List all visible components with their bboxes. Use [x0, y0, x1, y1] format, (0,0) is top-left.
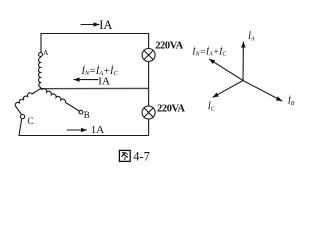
phasor vector IB [243, 81, 282, 101]
phasor vector IN [209, 59, 243, 80]
svg-text:IA: IA [98, 75, 110, 87]
svg-text:C: C [27, 117, 33, 127]
terminal C [21, 115, 25, 119]
svg-text:İB: İB [287, 96, 295, 108]
current arrow IN (middle, pointing left) [74, 79, 98, 81]
svg-text:IA: IA [99, 18, 112, 32]
wire lamp 2 to bottom rail [148, 119, 150, 136]
svg-text:İN=İA+İC: İN=İA+İC [191, 45, 227, 57]
caption figure number 图 4-7 [119, 149, 149, 163]
wire between lamps [148, 62, 150, 107]
svg-text:A: A [43, 48, 49, 57]
svg-text:İA: İA [247, 31, 255, 43]
current arrow IA top [81, 24, 99, 26]
svg-text:İC: İC [207, 101, 216, 113]
wire bottom rail [19, 135, 149, 137]
wire bottom-left riser to terminal C [19, 119, 22, 135]
svg-text:220VA: 220VA [155, 41, 183, 52]
wire top rail [41, 33, 149, 35]
terminal B [79, 110, 83, 114]
current arrow IA bottom [67, 129, 87, 131]
svg-text:1A: 1A [91, 124, 105, 136]
neutral wire N (star point to mid junction) [41, 87, 149, 89]
lamp HL1 220VA [142, 49, 155, 62]
svg-text:220VA: 220VA [157, 103, 185, 114]
svg-text:B: B [84, 110, 90, 120]
wire top-left vertical (A terminal to top rail) [40, 34, 42, 53]
wire right drop to lamp 1 [148, 34, 150, 49]
phasor vector IC [213, 81, 243, 98]
svg-text:4-7: 4-7 [133, 149, 150, 163]
lamp HL2 220VA [142, 106, 155, 119]
terminal A [39, 53, 43, 57]
winding phase C (coil) [14, 89, 40, 115]
winding phase A (coil) [39, 57, 41, 89]
winding phase B (coil) [41, 87, 80, 111]
phasor vector IA [242, 42, 244, 81]
